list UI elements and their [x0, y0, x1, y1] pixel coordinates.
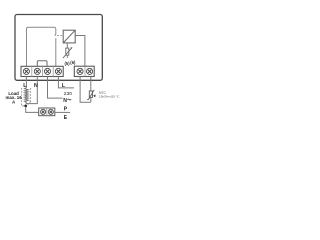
sensor screw 1: [77, 68, 83, 74]
main terminal strip: [21, 66, 63, 76]
screen dashed left: [21, 88, 23, 105]
wire terminal1 to load: [25, 77, 27, 88]
sensor terminal strip: [74, 66, 94, 76]
wire terminal3 supply N: [48, 77, 63, 99]
wire terminal2 to load: [26, 77, 37, 104]
screen dashed right: [30, 88, 32, 102]
potentiometer RV1: [66, 48, 69, 55]
switch contact: [55, 38, 57, 66]
svg-text:A: A: [12, 100, 16, 105]
NTC thermistor: [89, 91, 92, 98]
thermostat housing: [15, 15, 102, 81]
wire relay to potentiometer: [66, 43, 68, 48]
wire sensor right: [90, 77, 92, 92]
terminal 3 screw: [44, 68, 50, 74]
svg-text:230: 230: [64, 91, 72, 97]
terminal 2 screw: [34, 68, 40, 74]
terminal 1 screw: [23, 68, 29, 74]
svg-text:(6): (6): [70, 60, 76, 65]
terminal 4 screw: [55, 68, 61, 74]
heating element: [25, 88, 29, 103]
svg-text:N: N: [34, 83, 38, 89]
svg-text:N: N: [63, 98, 67, 104]
control unit: [27, 27, 56, 66]
earth screw 1: [41, 109, 46, 114]
jumper terminals 2-3: [37, 61, 47, 67]
junction dot: [24, 105, 27, 108]
NTC arrow mark: [93, 94, 95, 97]
wire NTC bottom: [90, 98, 92, 103]
sensor screw 2: [87, 68, 93, 74]
wire to PE: [55, 111, 70, 113]
mechanical link: [57, 35, 63, 37]
svg-text:E: E: [64, 115, 68, 121]
svg-text:L: L: [62, 83, 65, 89]
earth connector: [39, 108, 55, 116]
wire terminal4 supply L: [58, 77, 74, 88]
svg-text:15kOhm/25 °C: 15kOhm/25 °C: [99, 95, 120, 99]
relay U1: [63, 30, 75, 43]
svg-text:P: P: [64, 106, 68, 112]
earth screw 2: [48, 109, 53, 114]
wire to earth connector: [26, 107, 39, 112]
wire relay to sensor strip: [75, 36, 85, 67]
wire sensor left: [80, 77, 91, 103]
